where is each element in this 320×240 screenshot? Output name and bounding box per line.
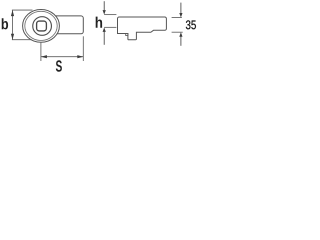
dimension b: bottom extension line xyxy=(12,39,32,41)
dimension b: bottom arrowhead xyxy=(11,34,14,40)
dimension h: bottom extension line xyxy=(104,26,116,28)
dimension h: bottom arrow (outside, pointing up) xyxy=(103,32,105,45)
dimension b: dimension line xyxy=(12,10,14,40)
dimension S: dimension line xyxy=(41,56,83,58)
dimension S: left extension line xyxy=(40,43,42,61)
side view: detent nub on drive peg xyxy=(126,34,128,36)
dimension S: right arrowhead xyxy=(77,55,83,58)
dimension S: right extension line xyxy=(82,36,84,61)
front view: square drive hole xyxy=(37,21,47,31)
dimension 35: top extension line xyxy=(172,17,182,19)
dimension S: left arrowhead xyxy=(41,55,47,58)
dimension S: label xyxy=(56,60,62,72)
dimension b: top arrowhead xyxy=(11,10,14,16)
front view: chamfer ring ellipse xyxy=(25,11,57,40)
dimension 35: bottom arrow (outside, pointing up) xyxy=(180,36,182,46)
dimension h: top extension line xyxy=(104,14,116,16)
side view: bar outline with drive peg, detent nub and stepped bottom xyxy=(118,17,167,40)
front view: tang outline xyxy=(55,16,83,34)
front view: inner bore circle xyxy=(33,17,52,36)
dimension b: top extension line xyxy=(12,9,33,11)
dimension h: label xyxy=(96,17,102,28)
dimension h: top arrow (outside, pointing down) xyxy=(103,1,105,10)
dimension b: label xyxy=(2,18,8,29)
dimension 35: label xyxy=(186,20,191,29)
dimension 35: top arrow (outside, pointing down) xyxy=(180,3,182,14)
dimension 35: bottom extension line xyxy=(172,31,183,33)
front view: outer ring ellipse xyxy=(23,10,60,43)
